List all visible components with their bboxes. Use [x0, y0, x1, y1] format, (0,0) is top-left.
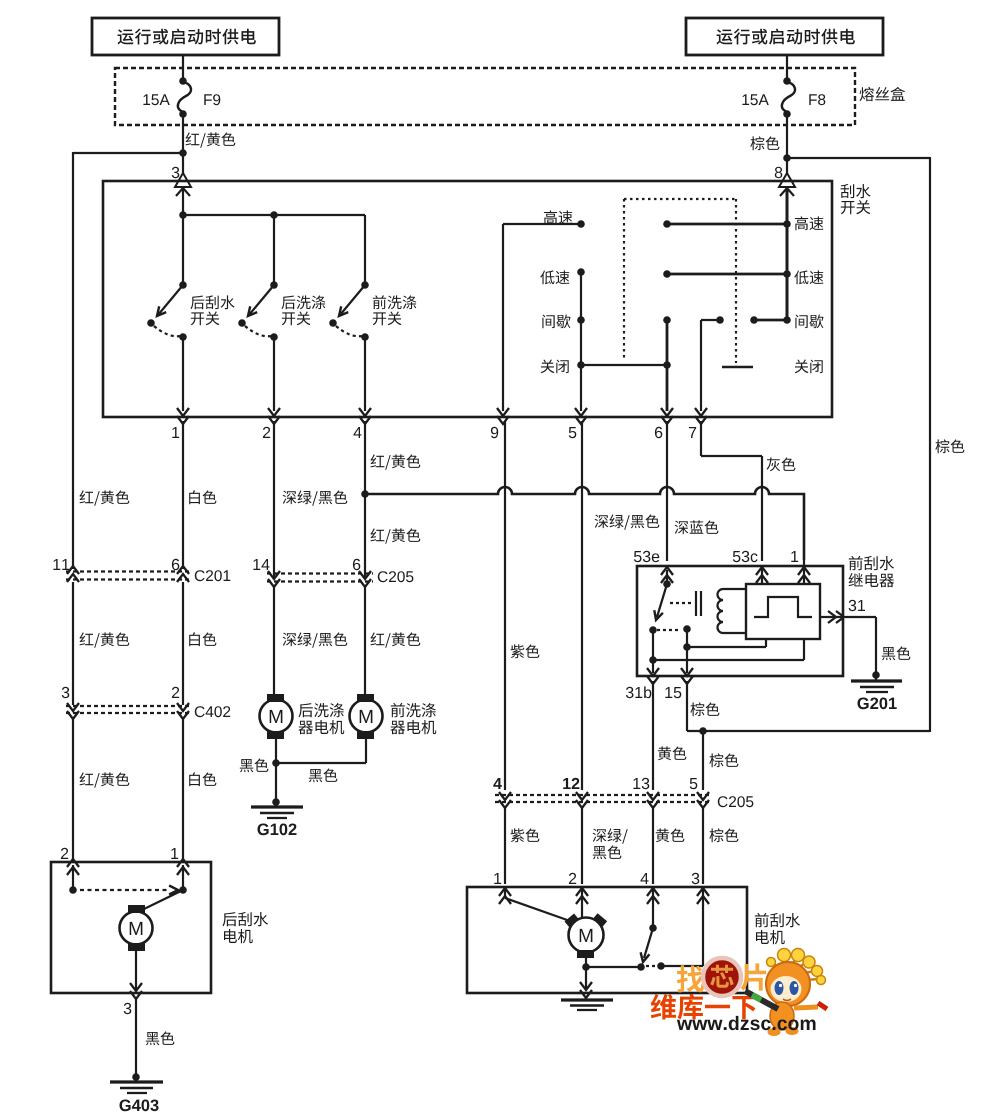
rear wiper motor box	[51, 862, 211, 993]
relay timer box	[746, 584, 820, 639]
wire 15 brown	[687, 681, 719, 731]
wire junction to left drop	[73, 152, 183, 154]
wire pin1 white	[183, 421, 216, 569]
pin 9 exit	[497, 408, 509, 424]
node bus 2	[270, 211, 278, 219]
connector C402	[66, 703, 191, 719]
front motor ground symbol	[561, 1000, 613, 1010]
rear washer switch 后洗涤开关	[238, 281, 278, 411]
front wiper motor M	[564, 913, 607, 958]
wafer ground bar	[722, 366, 753, 369]
rear wiper switch 后刮水开关	[147, 281, 187, 411]
wire yellow low	[653, 808, 684, 884]
rear motor pin3 exit	[130, 983, 142, 999]
wiper switch label 刮水开关	[841, 184, 871, 214]
pin 1 label	[172, 427, 179, 438]
rear motor pin2 entry	[67, 859, 79, 875]
wiper contact int pickup	[663, 316, 671, 324]
pin 3 label	[172, 167, 180, 178]
contact intermittent left	[542, 314, 584, 328]
wire battery to F9	[182, 55, 184, 80]
label high-speed right	[795, 216, 823, 230]
label low-speed right	[794, 270, 823, 284]
relay label	[849, 556, 895, 587]
wire low-int-off	[580, 272, 582, 411]
label black left	[240, 758, 269, 772]
wire int row to pin7	[701, 316, 724, 411]
wire off row	[581, 364, 667, 366]
C205bot pin 13 label	[633, 778, 649, 789]
front motor pin2 entry	[576, 888, 588, 904]
rear motor pin2 label	[61, 848, 68, 859]
front motor label	[755, 913, 800, 944]
contact high-speed left	[544, 210, 585, 227]
power feed box right	[686, 18, 883, 55]
ground G102	[251, 798, 303, 835]
C205bot pin 12 label	[563, 778, 579, 789]
fuse F8	[782, 77, 795, 118]
red/yellow bus to relay	[365, 487, 804, 560]
front motor pin1 entry	[499, 888, 511, 904]
rear wiper motor label	[223, 912, 269, 943]
wire F8 to junction brown	[750, 114, 787, 158]
front washer motor label	[391, 703, 437, 734]
wiper contact high row	[663, 220, 791, 228]
relay pin 53e entry	[634, 551, 673, 583]
wire junction to pin3	[182, 153, 184, 182]
node brown branch	[699, 727, 707, 735]
front motor pin2 wire	[581, 890, 583, 917]
rear motor pin1 entry	[177, 859, 189, 875]
label off right	[795, 360, 823, 374]
wire pin5 darkgreen/black	[582, 421, 659, 790]
wire darkgreen/black to motor	[274, 587, 347, 699]
wiper switch box	[103, 181, 832, 417]
rear motor pin3 label	[124, 1003, 132, 1014]
front motor feed diagonal	[505, 890, 570, 921]
junction node brown	[783, 154, 791, 162]
front motor park switch	[637, 890, 703, 971]
C205bot pin 5 label	[690, 778, 698, 789]
node pin4 branch	[361, 490, 369, 498]
rear washer motor M	[260, 694, 293, 739]
C402 name	[195, 706, 230, 717]
wire 31b yellow	[653, 681, 686, 790]
C205bot name	[718, 796, 754, 807]
node bus 1	[179, 211, 187, 219]
wire 53c into timer	[761, 566, 763, 584]
relay pin 1 entry	[791, 551, 810, 583]
watermark dzsc	[651, 949, 827, 1037]
fuse F9 name	[204, 94, 220, 105]
front motor pin3 label	[692, 873, 700, 884]
pin 3 entry	[175, 173, 191, 196]
fuse F8 name	[809, 94, 825, 105]
wiper contact int row	[750, 316, 791, 324]
wire black to G403	[136, 999, 174, 1076]
relay pin 31b label	[626, 686, 651, 698]
relay contact wires	[649, 629, 804, 664]
washer motors ground wires	[276, 739, 366, 763]
C205top pin 6 label	[353, 559, 360, 570]
fuse box label 熔丝盒	[860, 87, 906, 101]
rear motor feed diagonal	[144, 890, 183, 909]
wire brown to right edge	[787, 157, 930, 159]
front motor pin4 label	[641, 873, 649, 884]
wire red/yellow to motor	[365, 587, 420, 699]
connector C205 bottom	[495, 792, 712, 808]
relay capacitor contact	[696, 591, 701, 616]
wire junction to pin8	[786, 158, 788, 182]
wire F9 to junction red/yellow	[183, 114, 235, 153]
pin 8 entry	[779, 173, 795, 196]
fuse F8 value 15A	[742, 94, 768, 105]
rear wiper motor M	[120, 905, 153, 951]
C205top name	[378, 571, 414, 582]
ground G201	[851, 671, 902, 709]
rear motor internal contacts	[69, 865, 187, 894]
wiper contact low row	[663, 270, 791, 278]
C205top pin 14 label	[253, 559, 269, 570]
wire brown low	[703, 808, 738, 884]
junction node red/yellow	[179, 149, 187, 157]
wire right brown drop	[930, 157, 964, 732]
front wiper motor box	[467, 887, 747, 993]
pin 8 label	[775, 167, 783, 178]
pin 4 exit	[359, 408, 371, 424]
front motor pin2 label	[569, 873, 576, 884]
contact low-speed left	[540, 268, 585, 284]
connector C205 top	[267, 571, 373, 587]
wire black to G201	[876, 617, 910, 681]
rear motor park dashed	[80, 886, 178, 895]
wire switch feed bus	[183, 189, 365, 285]
front motor ground exit	[580, 982, 592, 998]
front washer switch label	[373, 295, 417, 325]
washer ground node	[272, 759, 280, 767]
wire purple low	[505, 808, 539, 884]
relay pin 15 label	[665, 687, 681, 698]
front motor pin4 entry	[647, 888, 659, 904]
wire white mid	[183, 582, 216, 705]
wire high-speed to pin9	[503, 224, 581, 411]
pin 2 exit	[268, 408, 280, 424]
front motor pin1 label	[494, 873, 501, 884]
relay pin 31b exit	[647, 660, 659, 684]
wire battery to F8	[786, 55, 788, 80]
C402 pin 3 label	[62, 687, 70, 698]
wire red/yellow low	[73, 719, 129, 860]
relay contact dashed	[657, 625, 691, 633]
relay pin 15 exit	[681, 647, 693, 684]
front wiper relay box	[637, 566, 843, 676]
wire pin7 gray	[701, 421, 795, 561]
node off-pin6	[663, 361, 671, 369]
pin 6 exit	[661, 408, 673, 424]
relay switch arm	[649, 570, 671, 634]
wire pin1 into timer	[803, 560, 805, 584]
wire left red/yellow drop	[73, 152, 129, 569]
ground G403	[110, 1073, 163, 1111]
contact off left	[541, 360, 585, 374]
wire pin6 drop	[666, 320, 669, 411]
C402 pin 2 label	[172, 687, 179, 698]
fuse F9	[178, 77, 191, 118]
wire pin9 purple	[505, 421, 539, 790]
relay pin 31 label	[849, 600, 865, 611]
wire brown bottom bus	[687, 730, 930, 732]
front washer switch 前洗涤开关	[329, 281, 369, 411]
C205bot pin 4 label	[493, 778, 502, 789]
pin 1 exit	[177, 408, 189, 424]
front motor ground wire	[585, 966, 587, 989]
pin 9 label	[491, 427, 498, 438]
relay coil	[718, 589, 747, 633]
wire darkgreen/black low	[582, 808, 628, 884]
rear washer motor label	[299, 703, 345, 734]
wire to G102	[275, 763, 277, 801]
switch wafer dashed	[624, 199, 736, 363]
pin 2 label	[263, 427, 270, 438]
rear motor pin1 label	[171, 848, 178, 859]
relay arm dashed to cap	[670, 602, 692, 604]
rear motor ground wire	[135, 951, 137, 990]
relay pin 31 exit	[820, 611, 876, 623]
relay timer waveform	[754, 597, 812, 617]
rear wiper switch label	[191, 295, 235, 325]
wire pin2 darkgreen/black	[274, 421, 347, 577]
wire pin4 red/yellow lower	[365, 494, 420, 577]
front motor ground node	[582, 958, 641, 971]
wire red/yellow mid	[73, 582, 129, 705]
wire pin6 darkblue	[667, 421, 718, 561]
pin 7 label	[689, 427, 696, 438]
front washer motor M	[350, 694, 383, 739]
relay pin 53c entry	[733, 551, 768, 583]
wire brown to C205	[703, 731, 738, 790]
connector C201	[66, 566, 191, 582]
pin 5 label	[569, 427, 577, 438]
fuse F9 value 15A	[143, 94, 169, 105]
pin 6 label	[655, 427, 662, 438]
label black right	[309, 768, 338, 782]
wire pin4 red/yellow upper	[365, 421, 420, 494]
pin 5 exit	[575, 408, 587, 424]
C201 pin 11 label	[53, 559, 69, 570]
front motor pin3 entry	[697, 888, 709, 904]
fuse box	[115, 68, 855, 125]
power feed box left	[92, 18, 279, 55]
C201 pin 6 label	[172, 559, 179, 570]
label intermittent right	[795, 314, 823, 328]
rear washer switch label	[282, 295, 326, 325]
pin 4 label	[354, 427, 362, 438]
wire pin8 main drop	[786, 189, 789, 320]
C201 name	[195, 570, 230, 581]
pin 7 exit	[695, 408, 707, 424]
wire white low	[183, 719, 216, 860]
